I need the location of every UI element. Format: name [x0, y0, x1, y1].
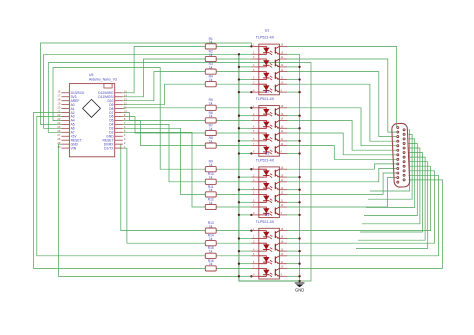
wire A7 top line 3 to GND rail: [48, 63, 311, 281]
wire D8 to R5: [123, 107, 206, 110]
svg-text:23: 23: [57, 117, 60, 121]
junction emitter bus U4.3: [298, 263, 300, 265]
svg-text:U5: U5: [89, 73, 93, 77]
junction cathode bus U4.1: [238, 237, 240, 239]
svg-text:1k: 1k: [209, 102, 213, 106]
resistor R5: [205, 98, 216, 110]
wire R1 to U1 anode: [216, 45, 251, 47]
wire cathode bus to U4 pin6: [239, 263, 252, 265]
svg-text:26: 26: [57, 129, 60, 133]
svg-text:15: 15: [124, 90, 127, 94]
junction U2 pin8 node: [250, 152, 252, 154]
svg-text:1k: 1k: [209, 224, 213, 228]
wire D2 to R12: [123, 132, 206, 207]
resistor R1: [205, 37, 216, 49]
wire cathode bus to U4 pin8: [239, 275, 252, 277]
wire GND pin to cathode bus: [58, 144, 239, 276]
svg-text:1k: 1k: [209, 262, 213, 266]
svg-text:D1/TX: D1/TX: [104, 146, 114, 150]
junction cathode bus U1.4: [238, 91, 240, 93]
svg-text:16: 16: [57, 90, 60, 94]
wire U3 emitter4 to bus: [287, 214, 300, 216]
wire U4 emitter3 to bus: [287, 263, 300, 265]
wire R13 to U4 anode: [216, 230, 251, 232]
svg-text:20: 20: [57, 105, 60, 109]
wire U3 collector4 to DB25 pin 12: [287, 178, 396, 207]
wire U3 collector3 to DB25 pin 11: [287, 173, 396, 194]
wire cathode bus to U3 pin8: [239, 214, 252, 216]
wire cathode bus to U1 pin4: [239, 66, 252, 68]
wire U1 collector1 to DB25 pin 1: [287, 46, 397, 127]
svg-text:TLP521-4X: TLP521-4X: [256, 220, 275, 224]
Arduino Nano U5: [57, 73, 127, 157]
resistor R2: [205, 49, 216, 61]
wire R11 to U3 anode: [216, 193, 251, 195]
wire R16 to U4 anode: [216, 267, 251, 269]
junction cathode bus U3.3: [238, 201, 240, 203]
resistor R10: [205, 172, 216, 184]
wire A6 to cathode bus (top line 2): [44, 54, 239, 128]
wire cathode bus to U2 pin6: [239, 140, 252, 142]
junction cathode bus U2.3: [238, 140, 240, 142]
wire R6 to U2 anode: [216, 119, 251, 121]
svg-text:18: 18: [57, 97, 60, 101]
wire DB25 pin 20 stub: [358, 157, 425, 240]
junction emitter bus U1.4: [298, 91, 300, 93]
junction cathode bus U1.2: [238, 66, 240, 68]
op-to-coupler U4 TLP521-4X: [252, 213, 288, 279]
svg-text:28: 28: [57, 137, 60, 141]
wire A2 to R16: [34, 113, 206, 269]
wire A3 to R15: [37, 117, 206, 256]
svg-text:1k: 1k: [209, 65, 213, 69]
svg-text:1k: 1k: [209, 237, 213, 241]
wire U2 collector3 to DB25 pin 7: [287, 133, 396, 155]
wire D6 to R7: [123, 117, 206, 134]
wire emitter bus vertical: [299, 54, 301, 283]
resistor R13: [205, 221, 216, 233]
junction ground node: [298, 280, 300, 282]
svg-text:TLP521-4X: TLP521-4X: [256, 36, 275, 40]
svg-text:12: 12: [124, 101, 127, 105]
junction cathode bus U4.2: [238, 250, 240, 252]
wire U4 collector1 to DB25 pin 22: [287, 166, 431, 230]
wire R15 to U4 anode: [216, 255, 251, 257]
wire DB25 pin 18 stub: [362, 148, 420, 224]
wire U4 collector2 to DB25 pin 23: [287, 171, 435, 243]
svg-text:1k: 1k: [209, 250, 213, 254]
wire U2 emitter3 to bus: [287, 140, 300, 142]
svg-text:1k: 1k: [209, 127, 213, 131]
wire cathode bus to U2 pin8: [239, 153, 252, 155]
svg-text:30: 30: [57, 145, 60, 149]
wire cathode bus to U1 pin2: [239, 53, 252, 55]
wire R4 to U1 anode: [216, 83, 251, 85]
junction emitter bus U4.4: [298, 275, 300, 277]
wire cathode bus to U2 pin4: [239, 127, 252, 129]
wire DB25 pin 15 stub: [368, 134, 412, 199]
junction U3 pin8 node: [250, 214, 252, 216]
resistor R11: [205, 185, 216, 197]
resistor R8: [205, 136, 216, 148]
svg-text:Arduino_Nano_V3: Arduino_Nano_V3: [89, 78, 117, 82]
junction emitter bus U3.2: [298, 189, 300, 191]
wire U2 emitter1 to bus: [287, 115, 300, 117]
svg-text:1k: 1k: [209, 53, 213, 57]
wire U3 emitter1 to bus: [287, 176, 300, 178]
op-to-coupler U2 TLP521-4X: [252, 90, 288, 156]
resistor R7: [205, 123, 216, 135]
wire R3 to U1 anode: [216, 71, 251, 73]
wire U4 emitter1 to bus: [287, 238, 300, 240]
wire DB25 pin 19 stub: [360, 153, 423, 232]
junction emitter bus U2.1: [298, 115, 300, 117]
junction emitter bus U4.1: [298, 237, 300, 239]
svg-text:1k: 1k: [209, 201, 213, 205]
wire D5 to R8: [123, 121, 206, 146]
svg-text:1k: 1k: [209, 188, 213, 192]
wire U1 emitter2 to bus: [287, 66, 300, 68]
wire U2 collector1 to DB25 pin 5: [287, 108, 396, 146]
junction emitter bus U3.1: [298, 176, 300, 178]
svg-text:1k: 1k: [209, 114, 213, 118]
svg-text:25: 25: [57, 125, 60, 129]
svg-text:1k: 1k: [209, 78, 213, 82]
wire U3 emitter3 to bus: [287, 201, 300, 203]
wire A5 to U1 pin1 node (top line 1): [41, 43, 252, 124]
wire cathode bus to U4 pin4: [239, 250, 252, 252]
svg-text:14: 14: [124, 93, 127, 97]
wire U3 emitter2 to bus: [287, 189, 300, 191]
svg-text:19: 19: [57, 101, 60, 105]
wire U4 emitter4 to bus: [287, 275, 300, 277]
wire U2 collector4 to DB25 pin 8: [287, 146, 396, 160]
wire cathode bus vertical: [239, 54, 300, 281]
junction emitter bus U4.2: [298, 250, 300, 252]
wire R9 to U3 anode: [216, 168, 251, 170]
op-to-coupler U3 TLP521-4X: [252, 151, 288, 217]
resistor R12: [205, 197, 216, 209]
wire U2 collector2 to DB25 pin 6: [287, 120, 396, 150]
svg-text:22: 22: [57, 113, 60, 117]
junction emitter bus U3.4: [298, 214, 300, 216]
wire R8 to U2 anode: [216, 145, 251, 147]
svg-text:U4: U4: [265, 213, 270, 217]
svg-text:GND: GND: [295, 288, 304, 293]
wire D10 to R3: [123, 72, 206, 101]
junction cathode bus U1.1: [238, 53, 240, 55]
wire R2 to U1 anode: [216, 58, 251, 60]
resistor R6: [205, 111, 216, 123]
svg-text:29: 29: [57, 141, 60, 145]
junction emitter bus U3.3: [298, 201, 300, 203]
wire D7 to R6: [123, 113, 206, 121]
junction U2 pin1 node: [250, 107, 252, 109]
wire cathode bus to U2 pin2: [239, 115, 252, 117]
svg-text:VIN: VIN: [71, 146, 77, 150]
wire cathode bus to U1 pin8: [239, 91, 252, 93]
junction cathode bus U2.1: [238, 115, 240, 117]
svg-text:1k: 1k: [209, 40, 213, 44]
svg-text:27: 27: [57, 133, 60, 137]
svg-text:1k: 1k: [209, 139, 213, 143]
wire U3 collector1 to DB25 pin 9: [287, 164, 396, 169]
junction emitter bus U2.3: [298, 140, 300, 142]
resistor R9: [205, 160, 216, 172]
resistor R14: [205, 234, 216, 246]
wire R7 to U2 anode: [216, 132, 251, 134]
wire DB25 pin 16 stub: [366, 139, 415, 208]
wire R5 to U2 anode: [216, 107, 251, 109]
svg-text:21: 21: [57, 109, 60, 113]
junction U3 pin1 node: [250, 168, 252, 170]
junction cathode bus U3.2: [238, 189, 240, 191]
wire A4 to R9 (top line 4): [53, 68, 205, 170]
wire U2 emitter2 to bus: [287, 127, 300, 129]
wire DB25 pin 14 stub: [370, 130, 410, 191]
junction emitter bus U2.4: [298, 152, 300, 154]
wire U1 collector4 to DB25 pin 4: [287, 84, 396, 141]
svg-text:13: 13: [124, 97, 127, 101]
DB25 connector X1: [392, 123, 410, 187]
junction U4 pin1 node: [250, 229, 252, 231]
svg-text:1k: 1k: [209, 163, 213, 167]
wire U3 collector2 to DB25 pin 10: [287, 168, 396, 181]
wire U4 collector4 to DB25 pin 25: [287, 180, 443, 269]
wire R10 to U3 anode: [216, 181, 251, 183]
op-to-coupler U1 TLP521-4X: [252, 29, 288, 95]
wire D4 to R10: [123, 124, 206, 181]
wire U4 collector3 to DB25 pin 24: [287, 175, 439, 256]
svg-text:11: 11: [124, 105, 127, 109]
wire cathode bus to U3 pin6: [239, 201, 252, 203]
wire U1 collector2 to DB25 pin 2: [287, 59, 396, 132]
wire cathode bus to U3 pin4: [239, 189, 252, 191]
svg-text:U3: U3: [265, 151, 270, 155]
svg-text:U2: U2: [265, 90, 270, 94]
resistor R16: [205, 259, 216, 271]
wire U1 emitter4 to bus: [287, 91, 300, 93]
svg-text:10: 10: [124, 109, 127, 113]
wire cathode bus to U3 pin2: [239, 176, 252, 178]
junction U1 pin1 node: [250, 45, 252, 47]
wire U4 emitter2 to bus: [287, 250, 300, 252]
wire cathode bus to U1 pin6: [239, 79, 252, 81]
wire D11 to R2: [123, 59, 206, 97]
wire D9 to R4: [123, 84, 206, 105]
wire D12 to R1: [123, 46, 206, 92]
junction U1 pin8 node: [250, 91, 252, 93]
ground GND: [295, 283, 305, 293]
resistor R4: [205, 75, 216, 87]
svg-text:TLP521-4X: TLP521-4X: [256, 97, 275, 101]
svg-text:17: 17: [57, 93, 60, 97]
wire U1 emitter3 to bus: [287, 79, 300, 81]
junction emitter bus U1.3: [298, 78, 300, 80]
wire D1/TX to R14: [123, 148, 206, 243]
resistor R15: [205, 246, 216, 258]
resistor R3: [205, 62, 216, 74]
wire R14 to U4 anode: [216, 242, 251, 244]
wire U2 emitter4 to bus: [287, 153, 300, 155]
junction cathode bus U1.3: [238, 78, 240, 80]
wire U1 collector3 to DB25 pin 3: [287, 72, 396, 137]
wire U1 emitter1 to bus corner: [287, 53, 300, 55]
junction cathode bus U3.4: [238, 214, 240, 216]
junction cathode bus U2.2: [238, 127, 240, 129]
junction cathode bus U2.4: [238, 152, 240, 154]
junction cathode bus U4.4: [238, 275, 240, 277]
junction emitter bus U1.2: [298, 66, 300, 68]
junction cathode bus U4.3: [238, 263, 240, 265]
wire R12 to U3 anode: [216, 206, 251, 208]
junction emitter bus U2.2: [298, 127, 300, 129]
wire DB25 pin 17 stub: [364, 144, 417, 216]
wire cathode bus to U4 pin2: [239, 238, 252, 240]
wire DB25 pin 21 stub: [356, 162, 428, 249]
svg-text:24: 24: [57, 121, 60, 125]
svg-text:TLP521-4X: TLP521-4X: [256, 158, 275, 162]
wire D0/RX to R13: [121, 144, 206, 230]
svg-text:1k: 1k: [209, 176, 213, 180]
wire D3 to R11: [123, 128, 206, 194]
junction U4 pin8 node: [250, 275, 252, 277]
junction cathode bus U3.1: [238, 176, 240, 178]
svg-text:U1: U1: [265, 29, 270, 33]
